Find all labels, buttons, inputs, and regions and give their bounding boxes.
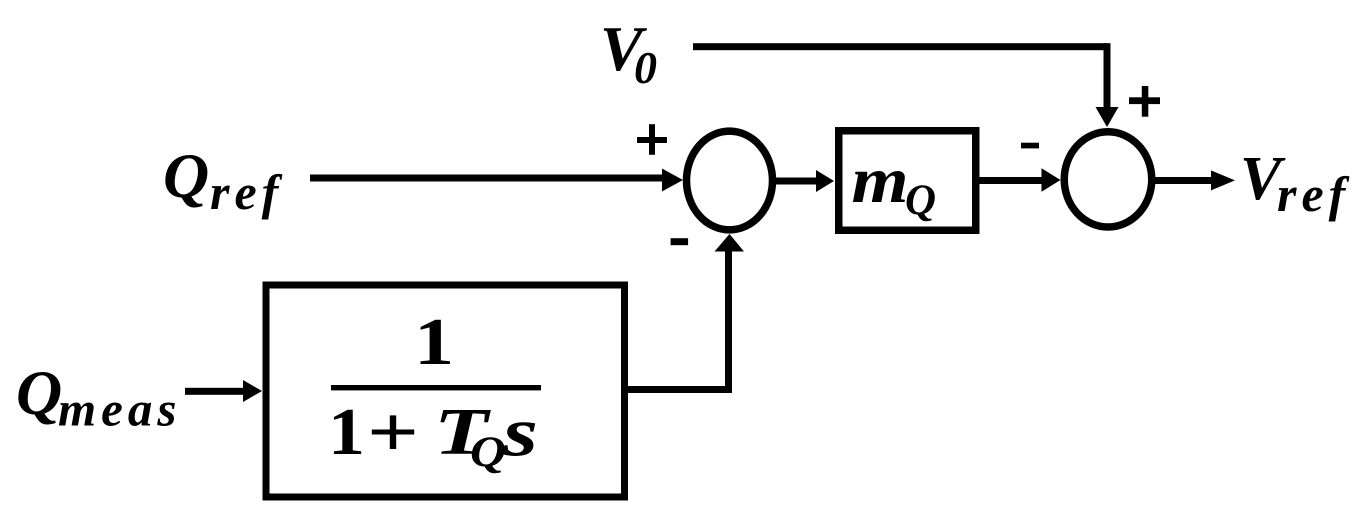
svg-text:s: s [502,395,538,472]
svg-text:1: 1 [414,305,454,379]
value label mQ [852,144,937,224]
arrowhead into gain block mQ [816,170,834,192]
svg-text:Q: Q [905,177,936,224]
arrowhead into summing junction U2 left [1042,168,1061,192]
wire U1 to gain block [774,178,816,185]
svg-text:1: 1 [328,395,365,469]
summing junction U1 [687,131,773,230]
filter block 1/(1+TQs) [266,285,625,497]
summing junction U2 [1064,132,1152,227]
arrowhead at Vref output [1211,170,1235,190]
svg-text:+: + [367,392,419,472]
arrowhead into filter block [243,380,262,402]
node V0 label [600,13,657,93]
wire Qref to summing junction U1 [310,175,662,182]
svg-text:meas: meas [58,382,181,437]
plus sign at U1 left input [637,124,667,155]
wire V0 vertical drop [1104,43,1111,110]
node Vref label [1240,145,1350,222]
minus sign at U1 bottom input [671,238,689,245]
wire gain block to summing junction U2 [977,177,1043,184]
wire filter block output (horizontal feedback run) [626,386,732,393]
svg-text:ref: ref [1277,166,1350,222]
wire U2 to Vref output [1154,177,1212,184]
wire V0 horizontal [693,43,1107,50]
svg-text:m: m [852,144,909,217]
svg-text:Q: Q [470,429,506,476]
gain block mQ [839,131,976,231]
arrowhead into summing junction U1 left [662,169,683,192]
fraction bar [331,385,541,390]
wire feedback vertical riser [725,250,732,393]
node Qmeas label [16,357,181,437]
node Qref label [163,140,283,220]
svg-text:Q: Q [163,140,209,211]
plus sign at U2 top input [1129,86,1160,117]
value label denominator 1 + TQ s [328,392,538,476]
svg-text:Q: Q [16,357,62,428]
svg-text:ref: ref [210,164,283,220]
arrowhead into summing junction U2 top [1096,107,1119,127]
wire Qmeas to filter block [185,388,244,395]
svg-text:0: 0 [634,42,657,93]
minus sign at U2 left input [1021,143,1039,149]
arrowhead into summing junction U1 bottom [715,234,745,252]
